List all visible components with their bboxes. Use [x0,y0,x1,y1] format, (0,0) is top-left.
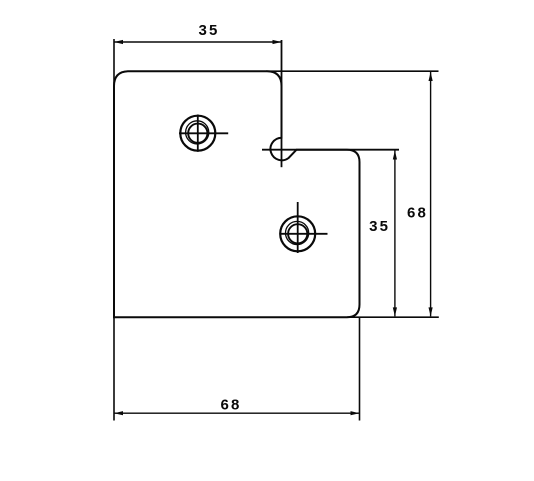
dimension line 68 bottom [114,412,360,414]
plate outline [114,71,360,317]
hole H2 thread circle [286,221,309,244]
dimension line 35 right [394,151,396,317]
svg-text:68: 68 [220,397,241,414]
hole H1 vertical centerline [197,115,199,152]
hole H2 vertical centerline [297,202,299,253]
notch horizontal centerline / step edge / extension to 35 dim [262,149,399,151]
notch vertical centerline / top extension line [281,40,283,167]
label 68 bottom [220,397,241,414]
hole H2 outer circle [280,216,315,251]
extension line top right [266,70,439,72]
label 35 top [198,22,219,39]
dimension line 68 right [430,72,432,316]
hole H2 horizontal centerline [280,233,328,235]
extension line bottom right of bottom edge [347,316,439,318]
extension line bottom right [359,317,361,420]
extension line left top [113,39,115,88]
extension line bottom left [113,317,115,420]
hole H2 inner circle [288,224,307,243]
svg-text:35: 35 [198,22,219,39]
svg-text:35: 35 [369,218,390,235]
hole H1 outer circle [180,116,215,151]
label 68 right [407,205,428,222]
dimension line 35 top [114,41,282,43]
svg-text:68: 68 [407,205,428,222]
hole H1 inner circle [188,124,207,143]
label 35 right [369,218,390,235]
hole H1 thread circle [186,121,209,144]
hole H1 horizontal centerline [179,132,228,134]
